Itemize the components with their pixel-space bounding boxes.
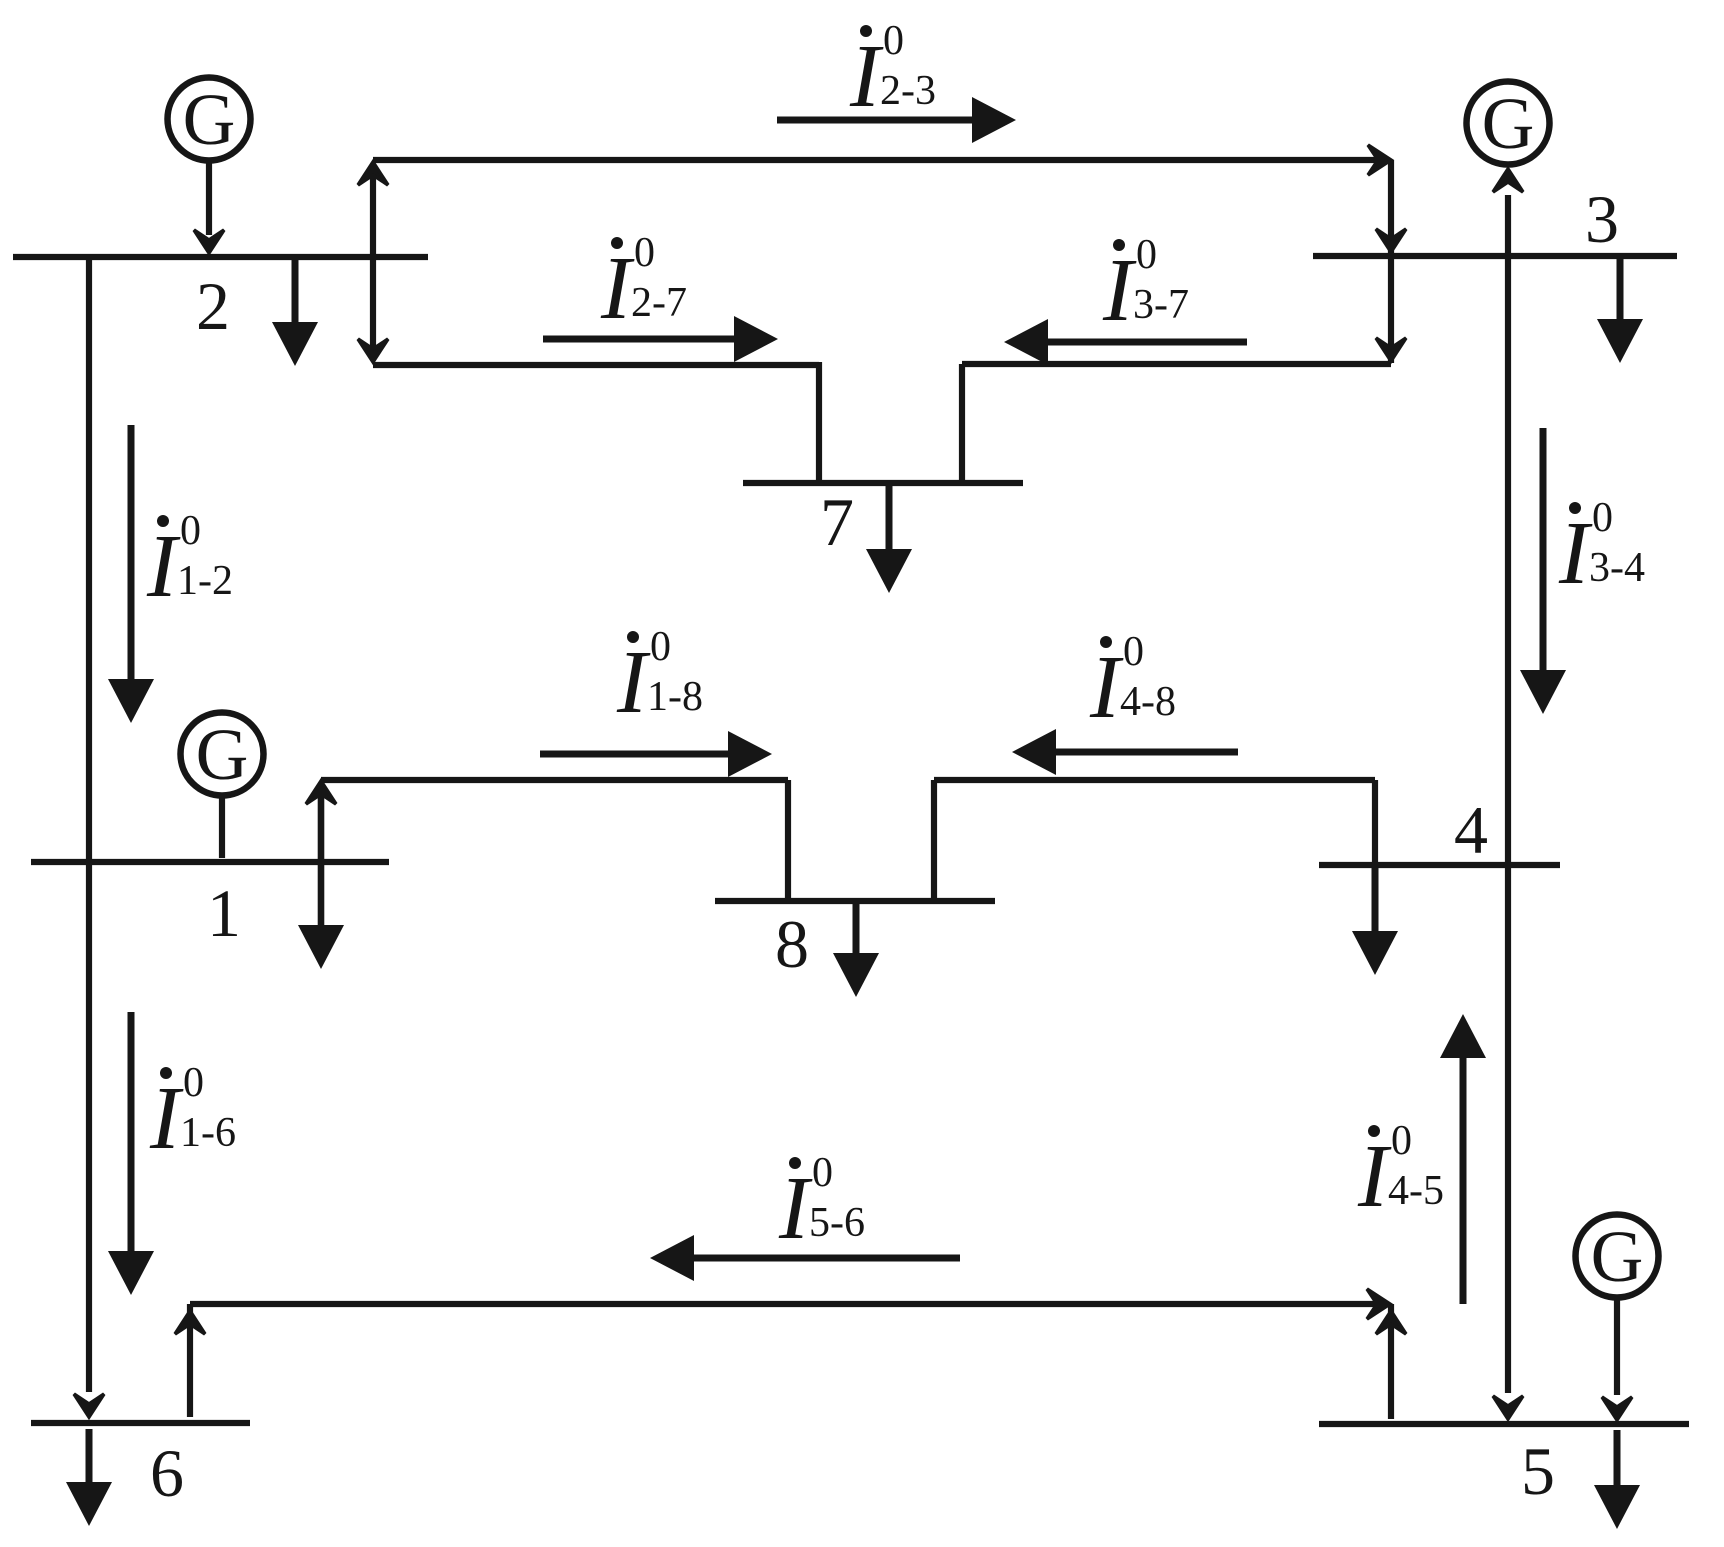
svg-text:8: 8 [775,906,809,982]
svg-text:7: 7 [820,484,854,560]
flow arrow I0 3-4 [1520,428,1645,714]
wire G5 lead into bus 5 [1602,1300,1632,1420]
wire bus 1 to line 1-8 and load (double arrow) [298,781,344,969]
line 2-7 wire [373,362,819,480]
bus 7 label [820,484,854,560]
svg-text:G: G [1591,1216,1644,1297]
svg-text:I: I [1558,504,1593,603]
generator G at bus 5 [1576,1215,1659,1298]
flow arrow I0 5-6 [650,1150,960,1281]
generator G at bus 1 [181,713,264,796]
svg-text:5: 5 [1521,1433,1555,1509]
bus 8 label [775,906,809,982]
svg-text:I: I [1089,638,1124,737]
svg-text:4-8: 4-8 [1120,679,1176,725]
svg-text:1-2: 1-2 [177,558,233,604]
svg-text:4-5: 4-5 [1388,1168,1444,1214]
wire G1 lead [219,798,225,858]
bus 5 label [1521,1433,1555,1509]
wire bus 2 to lines 2-3 and 2-7 (double arrow) [358,162,388,362]
svg-text:0: 0 [180,508,201,554]
line 2-3 wire [373,145,1406,363]
line 5-6 wire [175,1289,1406,1419]
svg-text:I: I [1102,241,1137,340]
svg-text:I: I [1357,1127,1392,1226]
generator G at bus 2 [168,78,251,161]
line 4-8 wire [934,780,1375,898]
svg-text:0: 0 [1391,1118,1412,1164]
svg-text:1-6: 1-6 [180,1110,236,1156]
load arrow at bus 7 [866,483,912,593]
svg-text:2-3: 2-3 [880,68,936,114]
svg-text:0: 0 [1136,232,1157,278]
load arrow at bus 8 [833,901,879,997]
flow arrow I0 1-8 [540,624,772,777]
svg-text:G: G [1482,83,1535,164]
svg-text:3-4: 3-4 [1589,545,1645,591]
bus 5 bar [1319,1421,1689,1427]
svg-text:I: I [149,1069,184,1168]
bus 6 bar [31,1420,250,1426]
svg-text:0: 0 [1592,495,1613,541]
bus 6 label [150,1435,184,1511]
flow arrow I0 2-3 [777,18,1016,143]
svg-text:G: G [183,79,236,160]
generator G at bus 3 [1467,82,1550,165]
svg-text:I: I [849,27,884,126]
flow arrow I0 3-7 [1004,232,1247,365]
line 3-7 wire [962,364,1391,480]
bus 4 label [1454,792,1488,868]
flow arrow I0 4-8 [1012,629,1238,775]
load arrow at bus 6 [66,1429,112,1526]
bus 1 label [207,875,241,951]
flow arrow I0 2-7 [543,230,778,362]
load arrow at bus 4 [1352,865,1398,975]
load arrow at bus 2 [272,257,318,366]
svg-text:3-7: 3-7 [1133,282,1189,328]
bus 8 bar [715,898,995,904]
load arrow at bus 3 [1597,257,1643,363]
bus 7 bar [743,480,1023,486]
svg-text:I: I [616,633,651,732]
svg-text:4: 4 [1454,792,1488,868]
wire G3 / line 3-4 / line 4-5 long vertical [1493,169,1523,1419]
svg-text:0: 0 [183,1060,204,1106]
svg-text:0: 0 [883,18,904,64]
svg-text:5-6: 5-6 [809,1200,865,1246]
svg-text:I: I [600,239,635,338]
svg-text:6: 6 [150,1435,184,1511]
wire G lead into bus 2 [194,163,224,253]
svg-text:I: I [146,517,181,616]
svg-text:3: 3 [1585,181,1619,257]
flow arrow I0 1-6 [108,1012,236,1295]
load arrow at bus 5 [1594,1430,1640,1529]
svg-text:I: I [778,1159,813,1258]
svg-text:0: 0 [650,624,671,670]
bus 3 label [1585,181,1619,257]
bus 2 label [196,268,230,344]
flow arrow I0 1-2 [108,425,233,723]
bus 2 bar [13,254,428,260]
svg-text:1: 1 [207,875,241,951]
svg-text:G: G [196,714,249,795]
line 1-2 / line 1-6 wire (left vertical) [74,257,104,1417]
svg-text:0: 0 [1123,629,1144,675]
svg-text:2: 2 [196,268,230,344]
svg-text:2-7: 2-7 [631,280,687,326]
svg-text:0: 0 [634,230,655,276]
flow arrow I0 4-5 [1357,1014,1486,1304]
bus 3 bar [1313,253,1677,259]
svg-text:1-8: 1-8 [647,674,703,720]
bus 1 bar [31,859,389,865]
line 1-8 wire [321,780,788,898]
bus 4 bar [1319,862,1560,868]
svg-text:0: 0 [812,1150,833,1196]
